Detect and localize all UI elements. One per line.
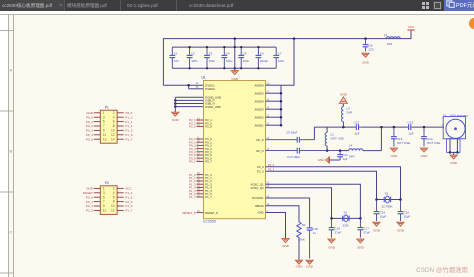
svg-text:7: 7: [103, 200, 105, 204]
svg-text:P1_6: P1_6: [125, 204, 132, 208]
svg-text:RF_P: RF_P: [257, 138, 264, 142]
svg-text:GND: GND: [397, 228, 405, 232]
svg-text:2: 2: [113, 187, 115, 191]
svg-text:32M: 32M: [343, 224, 349, 228]
svg-text:P2_0: P2_0: [205, 125, 212, 129]
svg-text:8: 8: [113, 124, 115, 128]
svg-text:3: 3: [103, 115, 105, 119]
svg-text:27pF: 27pF: [335, 231, 342, 235]
svg-text:P0_1: P0_1: [86, 120, 93, 124]
svg-text:1n: 1n: [313, 231, 317, 235]
svg-text:R1: R1: [302, 223, 306, 227]
svg-text:P1_7: P1_7: [125, 137, 132, 141]
svg-text:24R: 24R: [349, 155, 355, 159]
svg-text:GND: GND: [318, 158, 326, 162]
svg-text:GND: GND: [373, 228, 381, 232]
svg-text:472: 472: [174, 59, 179, 63]
svg-text:P2_4: P2_4: [268, 163, 275, 167]
svg-text:GND: GND: [328, 245, 336, 249]
svg-text:DCOUPL: DCOUPL: [252, 196, 264, 200]
svg-text:27pF: 27pF: [363, 231, 370, 235]
svg-text:5: 5: [103, 120, 105, 124]
svg-text:P0_0: P0_0: [86, 115, 93, 119]
svg-text:P2_1: P2_1: [86, 204, 93, 208]
svg-text:AVDD6: AVDD6: [255, 83, 265, 87]
svg-text:XOSC_Q2: XOSC_Q2: [250, 186, 264, 190]
svg-text:32.768K: 32.768K: [382, 205, 393, 209]
svg-text:L4: L4: [349, 144, 353, 148]
svg-text:GND: GND: [296, 264, 304, 268]
svg-text:C10 18pF: C10 18pF: [287, 155, 300, 159]
svg-text:P1_7: P1_7: [125, 209, 132, 213]
svg-text:P2_4: P2_4: [257, 165, 264, 169]
svg-text:100n: 100n: [243, 59, 250, 63]
svg-text:222: 222: [369, 48, 374, 52]
svg-text:AVDD2: AVDD2: [255, 115, 265, 119]
svg-text:P2_2: P2_2: [86, 209, 93, 213]
svg-text:GND: GND: [390, 154, 398, 158]
svg-text:C: C: [9, 231, 12, 235]
svg-text:P0_4: P0_4: [125, 111, 132, 115]
svg-text:P2: P2: [105, 181, 109, 185]
svg-text:12: 12: [111, 209, 115, 213]
svg-text:4: 4: [113, 115, 115, 119]
svg-text:RESET_N: RESET_N: [182, 211, 195, 215]
svg-text:GND: GND: [362, 61, 370, 65]
svg-text:GND: GND: [257, 211, 263, 215]
svg-text:12: 12: [111, 133, 115, 137]
svg-text:100n: 100n: [209, 59, 216, 63]
svg-text:AVDD5: AVDD5: [255, 91, 265, 95]
svg-text:L1: L1: [384, 33, 388, 37]
svg-text:C12: C12: [354, 121, 360, 125]
svg-text:P1_1: P1_1: [125, 120, 132, 124]
svg-text:GND: GND: [282, 244, 290, 248]
svg-text:220pF: 220pF: [260, 59, 268, 63]
svg-text:C3: C3: [209, 52, 213, 56]
svg-text:15pF: 15pF: [404, 214, 411, 218]
svg-text:3: 3: [103, 191, 105, 195]
svg-text:RESET: RESET: [83, 191, 93, 195]
svg-text:P1_4: P1_4: [125, 191, 132, 195]
svg-text:GND: GND: [172, 118, 180, 122]
svg-text:7: 7: [103, 124, 105, 128]
svg-text:P2_0: P2_0: [189, 125, 196, 129]
svg-text:P1_5: P1_5: [125, 195, 132, 199]
svg-text:10: 10: [111, 129, 115, 133]
svg-text:8: 8: [113, 200, 115, 204]
svg-text:9: 9: [103, 129, 105, 133]
svg-text:P1: P1: [105, 106, 109, 110]
svg-text:C4: C4: [226, 52, 230, 56]
svg-text:502: 502: [387, 42, 392, 46]
svg-text:RESET_N: RESET_N: [205, 211, 218, 215]
svg-text:P0_3: P0_3: [86, 129, 93, 133]
svg-text:P1_2: P1_2: [125, 124, 132, 128]
svg-text:P2_3: P2_3: [257, 170, 264, 174]
svg-text:5: 5: [103, 195, 105, 199]
svg-text:11: 11: [103, 133, 107, 137]
svg-text:13: 13: [103, 137, 107, 141]
svg-text:DVDD_USB: DVDD_USB: [205, 105, 220, 109]
svg-text:100n: 100n: [191, 59, 198, 63]
svg-text:NOT USE: NOT USE: [331, 137, 344, 141]
svg-text:GND: GND: [86, 187, 94, 191]
svg-text:56K: 56K: [300, 237, 305, 241]
svg-text:AVDD3: AVDD3: [255, 107, 265, 111]
svg-text:15pF: 15pF: [380, 214, 387, 218]
svg-text:10: 10: [111, 204, 115, 208]
svg-text:11: 11: [103, 209, 107, 213]
svg-text:P0_4: P0_4: [86, 133, 93, 137]
svg-text:P0_7: P0_7: [205, 160, 212, 164]
svg-text:GND: GND: [306, 264, 314, 268]
svg-text:1pF: 1pF: [409, 132, 414, 136]
svg-text:RF_N: RF_N: [256, 149, 263, 153]
svg-text:6: 6: [113, 195, 115, 199]
svg-text:P1_3: P1_3: [125, 129, 132, 133]
svg-text:AVDD4: AVDD4: [255, 99, 265, 103]
svg-text:GND: GND: [450, 161, 458, 165]
svg-text:NOT USE: NOT USE: [427, 141, 440, 145]
svg-text:P1_7: P1_7: [189, 195, 196, 199]
svg-text:100n: 100n: [278, 59, 285, 63]
svg-text:P0_6: P0_6: [86, 195, 93, 199]
svg-text:P0_2: P0_2: [86, 124, 93, 128]
svg-text:VCC: VCC: [408, 25, 415, 29]
svg-text:C2: C2: [191, 52, 195, 56]
svg-text:P1_6: P1_6: [125, 133, 132, 137]
svg-text:X2: X2: [385, 192, 389, 196]
svg-text:C1: C1: [174, 52, 178, 56]
svg-text:6: 6: [113, 120, 115, 124]
svg-text:C9 18pF: C9 18pF: [286, 131, 298, 135]
svg-text:2: 2: [113, 111, 115, 115]
svg-text:P0_7: P0_7: [86, 200, 93, 204]
svg-text:1: 1: [103, 111, 105, 115]
svg-text:GND: GND: [421, 154, 429, 158]
svg-text:X1: X1: [344, 210, 348, 214]
svg-text:P1_7: P1_7: [205, 195, 212, 199]
svg-text:NOT USE: NOT USE: [397, 141, 410, 145]
svg-text:C5: C5: [243, 52, 247, 56]
svg-text:100n: 100n: [226, 59, 233, 63]
svg-text:P1_0: P1_0: [125, 115, 132, 119]
svg-text:4: 4: [113, 191, 115, 195]
svg-text:9: 9: [103, 204, 105, 208]
svg-text:C7: C7: [278, 52, 282, 56]
svg-text:GND: GND: [340, 92, 348, 96]
svg-text:1pF: 1pF: [355, 132, 360, 136]
svg-text:14: 14: [111, 137, 115, 141]
svg-text:U1: U1: [202, 76, 206, 80]
svg-text:P0_5: P0_5: [86, 137, 93, 141]
svg-text:DVDD2: DVDD2: [205, 87, 215, 91]
svg-text:AVDD1: AVDD1: [255, 123, 265, 127]
svg-text:GND: GND: [86, 111, 94, 115]
svg-text:C6: C6: [260, 52, 264, 56]
svg-text:P0_7: P0_7: [189, 160, 196, 164]
svg-text:C13: C13: [408, 121, 414, 125]
svg-text:RBIAS: RBIAS: [255, 204, 264, 208]
svg-text:VCC: VCC: [125, 187, 132, 191]
svg-text:1pF: 1pF: [343, 157, 348, 161]
svg-text:CC2530: CC2530: [203, 220, 216, 224]
svg-text:1: 1: [103, 187, 105, 191]
svg-text:GND: GND: [357, 245, 365, 249]
svg-text:P2_0: P2_0: [125, 200, 132, 204]
svg-text:24R: 24R: [347, 111, 353, 115]
